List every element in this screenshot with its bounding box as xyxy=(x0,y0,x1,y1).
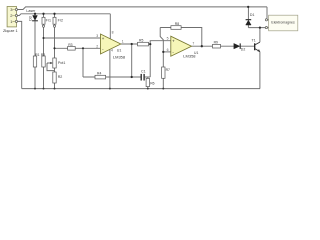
svg-text:U1: U1 xyxy=(117,49,122,53)
wire op-amp2 output to transistor base xyxy=(192,45,255,47)
wire Fr1 branch xyxy=(43,14,45,56)
svg-text:D1: D1 xyxy=(250,13,255,17)
svg-text:R6: R6 xyxy=(150,82,154,86)
op-amp U1 first half LM358 xyxy=(96,31,126,60)
wire output riser to C1 node xyxy=(131,44,133,77)
potentiometer Pot1 xyxy=(47,58,65,68)
node dot rail2 laser xyxy=(34,13,36,15)
node dot A jog xyxy=(149,43,151,45)
op-amp U1 second half LM358 xyxy=(167,36,199,58)
svg-text:Laser: Laser xyxy=(26,9,36,13)
wire ground from pin1 xyxy=(18,21,22,88)
wire rail2 drop to op-amp pin8 xyxy=(109,14,111,39)
photoresistor Fr2 xyxy=(53,17,63,27)
svg-text:D2: D2 xyxy=(241,48,246,52)
svg-text:Złącze 1: Złącze 1 xyxy=(3,28,18,33)
wire R8 feedback top xyxy=(160,28,202,47)
wire Fr2 branch xyxy=(54,14,56,58)
node dot wire2 Fr2 tap xyxy=(53,47,55,49)
node dot bus R6 xyxy=(147,88,149,90)
svg-text:8: 8 xyxy=(112,31,114,35)
node dot output riser xyxy=(131,43,133,45)
wire op-amp1 output xyxy=(121,43,150,45)
wire D1 branch xyxy=(247,7,249,28)
node dot rail2 Fr2 xyxy=(53,13,55,15)
diode D2 xyxy=(234,43,246,51)
resistor R5 xyxy=(138,39,149,46)
resistor R8 feedback xyxy=(171,22,181,29)
wire op-amp1 pin4 to bus xyxy=(109,50,111,89)
svg-text:T1: T1 xyxy=(252,38,256,42)
wire pot to R2 xyxy=(54,68,56,72)
wire rail2 laser supply xyxy=(18,14,111,16)
svg-text:R5: R5 xyxy=(139,39,143,43)
resistor R7 xyxy=(162,67,170,78)
svg-text:4: 4 xyxy=(111,49,113,53)
svg-text:2: 2 xyxy=(96,45,98,49)
wire R7 feedback vertical xyxy=(160,28,163,89)
node dot collector pin wire xyxy=(259,26,261,28)
wire riser to op-amp1 minus xyxy=(82,48,84,77)
node dot rail1 D1 xyxy=(247,6,249,8)
svg-text:R9: R9 xyxy=(214,40,218,44)
resistor R3 vertical xyxy=(41,53,45,67)
wire op-amp2 minus input xyxy=(163,51,170,53)
svg-text:5: 5 xyxy=(167,37,169,41)
wire R2 to bus xyxy=(54,83,56,89)
svg-text:LM358: LM358 xyxy=(183,54,196,59)
node dot C1 left xyxy=(131,76,133,78)
wire rail1 drop to electromagnet pin1 xyxy=(266,7,268,19)
laser diode D3 xyxy=(29,16,38,21)
resistor R4 xyxy=(95,72,106,79)
wire laser R1 to bus xyxy=(34,67,36,89)
connector Zlacze1 xyxy=(3,7,18,34)
photoresistor Fr1 xyxy=(42,17,51,27)
node dot bus R7 xyxy=(162,88,164,90)
svg-text:R7: R7 xyxy=(166,68,170,72)
svg-text:3: 3 xyxy=(96,34,98,38)
svg-text:R4: R4 xyxy=(97,72,101,76)
svg-text:+: + xyxy=(102,36,105,41)
svg-text:6: 6 xyxy=(167,48,169,52)
wire R3 to bus xyxy=(43,67,45,89)
svg-text:D3: D3 xyxy=(29,16,33,21)
connector Elektromagnes xyxy=(265,15,298,31)
wire laser branch xyxy=(34,14,36,56)
capacitor C1 xyxy=(141,70,146,81)
svg-text:R3: R3 xyxy=(41,53,45,57)
diode D1 flyback xyxy=(246,13,255,25)
resistor R2 xyxy=(53,72,63,83)
wire node A riser and jog to op-amp2 xyxy=(150,41,170,77)
svg-text:LM358: LM358 xyxy=(113,54,126,59)
svg-text:C1: C1 xyxy=(141,70,146,74)
node dot op-amp2 minus xyxy=(162,51,164,53)
node dot wire1 Fr1 tap xyxy=(42,37,44,39)
resistor R6 xyxy=(146,78,155,86)
wire feedback bottom R4 C1 xyxy=(83,76,150,78)
node dot bus R2 xyxy=(54,88,56,90)
wire pot wiper loop xyxy=(47,63,55,71)
svg-text:R3: R3 xyxy=(68,43,72,47)
transistor T1 xyxy=(252,38,261,52)
resistor R3 horizontal on minus wire xyxy=(68,43,76,50)
svg-text:R8: R8 xyxy=(175,22,179,26)
wire node A to op-amp1 plus input xyxy=(44,37,101,39)
resistor R9 xyxy=(213,40,221,48)
wire rail1 +V top xyxy=(18,7,268,10)
svg-text:Fr1: Fr1 xyxy=(46,18,51,22)
svg-text:R2: R2 xyxy=(58,75,63,79)
node dot output op-amp2 xyxy=(201,45,203,47)
wire electromagnet pin2 xyxy=(248,27,265,29)
node dot bus laser xyxy=(34,88,36,90)
svg-text:7: 7 xyxy=(192,41,194,45)
wire emitter to bus xyxy=(259,52,261,89)
svg-text:+: + xyxy=(172,39,175,44)
node dot bus R3 xyxy=(43,88,45,90)
svg-text:Fr2: Fr2 xyxy=(58,18,63,22)
resistor R1 xyxy=(33,53,39,67)
svg-text:Elektromagnes: Elektromagnes xyxy=(271,21,295,25)
node dot R4 riser xyxy=(82,47,84,49)
wire ground bus xyxy=(22,88,260,90)
wire R6 to bus xyxy=(147,77,149,89)
node dot bus pin4 xyxy=(109,88,111,90)
svg-text:Pot1: Pot1 xyxy=(58,61,65,65)
svg-text:1: 1 xyxy=(122,40,124,44)
svg-text:R1: R1 xyxy=(35,53,39,57)
node dot rail2 Fr1 xyxy=(42,13,44,15)
wire node B to op-amp1 minus input xyxy=(55,47,101,49)
wire collector top xyxy=(259,28,261,42)
